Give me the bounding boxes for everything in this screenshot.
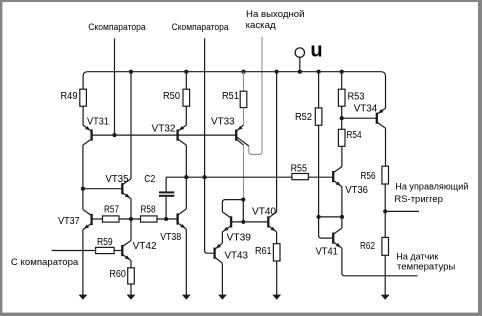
wire: rail to R53 (341, 72, 343, 90)
svg-text:R50: R50 (163, 91, 180, 102)
wire: signal line y=177.2 from C2 corner to R55 (166, 176, 292, 178)
ground at x=222.4 (218, 263, 227, 300)
svg-text:R59: R59 (97, 237, 113, 248)
junction: mirror tie at (243.3,199.6) (241, 198, 245, 202)
wire: VT33 collector tap to output-stage corner (237, 137, 249, 146)
power terminal circle U (295, 48, 304, 57)
wire: rail to R51 (gray) (243, 72, 245, 92)
transistor VT36 (333, 167, 368, 196)
transistor VT39 (222, 212, 251, 244)
svg-text:C2: C2 (144, 174, 155, 185)
junction on rail x=276.4 (275, 70, 279, 74)
wire: R51 to VT33 emitter (gray) (243, 108, 245, 126)
svg-text:R54: R54 (347, 130, 362, 141)
svg-text:VT34: VT34 (354, 103, 378, 114)
wire: signal line y=177.2 from R55 to VT36 base (308, 176, 333, 178)
svg-text:VT38: VT38 (160, 232, 181, 243)
junction: VT36 emitter / VT41 collector (340, 215, 344, 219)
junction: C2 bottom on R58-VT38 line (164, 217, 168, 221)
wire: output-stage line (gray) from label down to VT33 emitter corner (249, 37, 262, 155)
svg-text:R57: R57 (104, 205, 119, 216)
wire: rail down to VT40 collector (crosses signal line) (276, 72, 278, 212)
wire: rail to R50 (185, 72, 187, 90)
svg-text:VT42: VT42 (133, 241, 157, 252)
ground at x=131 (127, 284, 136, 300)
svg-text:Скомпаратора: Скомпаратора (88, 22, 146, 32)
node C junction (R53/R54/VT34 base) (340, 116, 344, 120)
node A junction (VT31 collector / VT35 base / VT37 collector) (81, 187, 85, 191)
resistor R62 (360, 237, 389, 255)
transistor VT33 (211, 117, 244, 146)
junction: VT39/VT40 base rail (241, 220, 245, 224)
capacitor C2 (144, 174, 174, 219)
wire: VT40 emitter to R61 (276, 232, 278, 244)
junction on rail x=131 (129, 70, 133, 74)
wire: R50 to VT32 emitter (185, 106, 187, 125)
wire: comparator input 2 drop to y=177 node (204, 38, 206, 177)
resistor R49 (61, 89, 87, 106)
transistor VT40 (252, 207, 277, 232)
svg-text:VT39: VT39 (227, 233, 252, 244)
svg-text:R51: R51 (222, 91, 239, 102)
wire: VT37 base to R57 (92, 218, 103, 220)
svg-text:VT35: VT35 (106, 174, 129, 185)
wire: R59 to VT42 base (114, 250, 122, 252)
wire: VT42 emitter to R60 (130, 261, 132, 268)
junction: VT32 collector / signal line (184, 175, 188, 179)
svg-text:R52: R52 (295, 112, 312, 123)
svg-text:На выходной: На выходной (246, 9, 305, 19)
transistor VT31 (83, 117, 109, 146)
wire: y=177 node down to VT38 collector (185, 177, 187, 209)
svg-text:VT41: VT41 (316, 247, 339, 258)
transistor VT37 (58, 210, 92, 230)
wire: R56 to R62 through RS-trigger node (384, 184, 386, 237)
transistor VT35 (106, 174, 132, 199)
ground at x=276.7 (272, 261, 281, 300)
wire: comparator input 1 drop, x=114.5 (114, 38, 116, 135)
svg-text:VT40: VT40 (252, 207, 276, 218)
svg-text:R49: R49 (61, 91, 78, 102)
svg-text:R60: R60 (109, 269, 126, 280)
ground at x=82.9 (79, 230, 88, 300)
wire: emitter link y=217 between R52 branch and VT36 emitter (319, 216, 342, 218)
svg-text:VT33: VT33 (211, 117, 235, 128)
svg-text:RS-триггер: RS-триггер (394, 194, 443, 204)
junction on rail x=318.6 (317, 70, 321, 74)
svg-text:R55: R55 (291, 164, 308, 175)
wire: R54 down to VT36 collector (341, 146, 343, 166)
junction on rail x=341.7 (340, 70, 344, 74)
wire: power terminal to rail (299, 57, 301, 71)
junction on rail x=243.5 (241, 70, 245, 74)
wire: link node down to VT41 collector (341, 217, 343, 228)
wire: VT36 emitter down to link node (341, 187, 343, 217)
svg-text:R56: R56 (361, 171, 376, 182)
wire: node C to R54 (341, 118, 343, 129)
wire: VT35 emitter down to R57/R58 node (130, 199, 132, 219)
junction: comparator 2 on signal line (203, 175, 207, 179)
resistor R55 (291, 164, 309, 180)
transistor VT41 (316, 228, 342, 257)
wire: VT35 base line from node A (83, 188, 122, 190)
wire: R53 to node C (341, 106, 343, 118)
svg-text:VT43: VT43 (225, 251, 249, 262)
resistor R57 (103, 205, 120, 223)
resistor R52 (295, 108, 322, 125)
resistor R51 (222, 91, 247, 108)
transistor VT42 (122, 241, 157, 261)
wire: VT31 collector down to node A (82, 145, 84, 189)
label: На управляющий RS-триггер (394, 182, 468, 205)
wire: mirror tie down to base rail of VT39/VT40 (242, 200, 244, 222)
wire: R49 to VT31 emitter (82, 106, 84, 125)
resistor R54 (338, 129, 361, 146)
label: На датчик температуры (396, 251, 455, 271)
wire: mirror tie corner to VT39 collector (222, 200, 243, 212)
resistor R59 (96, 237, 115, 254)
wire: VT39 emitter down to VT43 collector (221, 232, 223, 243)
wire: rail down to VT35 collector (130, 72, 132, 179)
wire: R52 down to emitter-link node (crosses signal line) (318, 125, 320, 217)
wire: output line to RS-trigger (385, 210, 419, 212)
svg-text:R53: R53 (348, 92, 365, 103)
junction on rail x=186.3 (184, 70, 188, 74)
wire: node B down to VT42 collector (130, 219, 132, 241)
ground at x=385.2 (381, 255, 390, 299)
transistor VT34 (354, 103, 386, 128)
svg-text:R58: R58 (141, 205, 156, 216)
svg-text:u: u (310, 40, 322, 62)
wire: comparator input 2 continues down to VT43 base (205, 177, 214, 253)
wire: rail to R52 (318, 72, 320, 108)
resistor R58 (141, 205, 158, 223)
wire: С компаратора input line (52, 250, 96, 252)
wire: VT32 collector down to y=177 node (185, 145, 187, 177)
transistor VT32 (152, 124, 187, 146)
svg-text:VT31: VT31 (87, 117, 109, 128)
resistor R61 (255, 244, 280, 261)
transistor VT43 (215, 243, 249, 263)
svg-text:R62: R62 (360, 241, 375, 252)
wire: VT41 emitter down and right to temperature-sensor line (342, 248, 418, 276)
svg-text:температуры: температуры (397, 262, 455, 272)
wire: +U horizontal rail with corners down to R49 (left) and VT34 emitter (right) (83, 72, 385, 109)
junction: R52 / emitter link (317, 215, 321, 219)
svg-text:Скомпаратора: Скомпаратора (172, 22, 229, 32)
svg-text:С компаратора: С компаратора (11, 257, 79, 268)
resistor R50 (163, 89, 190, 106)
svg-text:На датчик: На датчик (396, 251, 438, 261)
svg-text:VT36: VT36 (345, 185, 368, 196)
wire: node A down to VT37 collector (82, 189, 84, 210)
node B junction (VT35 emitter / R57 / R58 / VT42 collector) (129, 217, 133, 221)
transistor VT38 (160, 209, 186, 243)
junction on rail at power feed (298, 70, 302, 74)
svg-text:VT32: VT32 (152, 124, 176, 135)
wire: node C to VT34 base (342, 117, 377, 119)
ground at x=186.3 (182, 229, 191, 300)
junction: RS-trigger output node (383, 209, 387, 213)
resistor R53 (338, 89, 364, 106)
resistor R60 (109, 268, 134, 284)
wire: R58 to VT38 base with C2 node (157, 218, 177, 220)
svg-text:На управляющий: На управляющий (395, 182, 468, 192)
resistor R56 (361, 166, 389, 184)
junction: comparator 1 on base line (112, 133, 116, 137)
wire: VT34 collector down to R56 (385, 128, 387, 166)
wire: VT33 collector down through y=177 to mirror node (gray) (243, 145, 245, 200)
wire: R52 branch corner down to VT41 base (319, 217, 334, 238)
wire: R57 to R58 with node B (119, 218, 141, 220)
wire: VT39/VT40 base line (231, 221, 268, 223)
svg-text:VT37: VT37 (58, 216, 80, 227)
svg-text:R61: R61 (255, 246, 272, 257)
svg-text:каскад: каскад (246, 20, 277, 30)
label: На выходной каскад (output) (246, 9, 305, 30)
wire: common base line VT31-VT32-VT33 y=135 (92, 134, 237, 136)
